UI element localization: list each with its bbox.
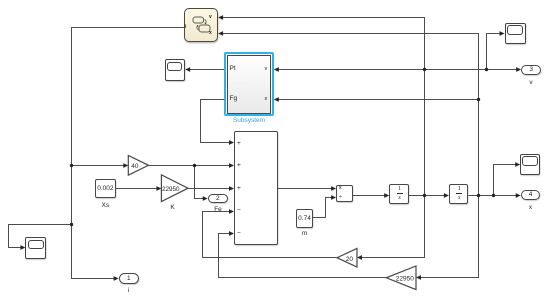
- wire branch up to scope2: [487, 34, 502, 70]
- gain 20 triangle (points left): [337, 248, 357, 267]
- wire constant 0.002 to gain K: [116, 188, 158, 190]
- wire branch from gain40 output down to outport 2 Fe: [195, 166, 205, 199]
- arrowhead into subsystem v input (points left): [274, 67, 279, 72]
- label x: [521, 204, 541, 211]
- junction dot integrator1 output: [423, 194, 426, 197]
- gain 22950b triangle (points left): [386, 266, 416, 290]
- chart port label x: [209, 30, 212, 36]
- junction dot velocity line x vertical: [423, 68, 426, 71]
- junction dot on gain40 output at Fe tap: [193, 164, 196, 167]
- arrowhead into scope4: [20, 245, 25, 250]
- product symbol x: [339, 185, 342, 191]
- gain K 22950 triangle: [161, 175, 188, 202]
- wire position line to subsystem x input: [277, 99, 479, 101]
- label v: [521, 79, 541, 86]
- arrowhead into chart x input (points left): [218, 31, 223, 36]
- subsystem port label x: [265, 96, 268, 102]
- outport 3 oval: [521, 65, 541, 75]
- constant 0.002: [95, 179, 116, 199]
- junction dot on trunk at scope4 tap: [70, 223, 73, 226]
- label Fe: [208, 206, 228, 213]
- arrowhead into scope2: [500, 31, 505, 36]
- wire product output to integrator 1: [353, 195, 386, 197]
- wire gain 22950b output to sum input 5: [219, 234, 387, 278]
- sum sign + input2: [237, 162, 241, 169]
- product block: [336, 185, 353, 202]
- label i: [119, 287, 139, 294]
- product symbol divide: [339, 194, 342, 200]
- wire gain 20 output to sum input 4: [203, 212, 338, 258]
- arrowhead into chart v input (points left): [218, 15, 223, 20]
- scope4 bottom left: [25, 237, 46, 259]
- arrowhead into sum input 5: [229, 231, 234, 236]
- arrowhead into sum input 4: [229, 209, 234, 214]
- junction dot on trunk at gain40 tap: [70, 164, 73, 167]
- arrowhead into outport 2: [203, 196, 208, 201]
- sum sign + input3: [237, 185, 241, 192]
- junction dot velocity line scope2 tap: [485, 68, 488, 71]
- constant 0.74: [296, 209, 313, 228]
- junction dot integrator2 output: [477, 194, 480, 197]
- wire subsystem Fg output to sum input 1: [201, 100, 231, 143]
- wire branch to gain 40 input: [72, 165, 125, 167]
- subsystem port label Fg: [230, 95, 238, 102]
- subsystem port label v: [265, 66, 268, 72]
- arrowhead into outport 3: [516, 67, 521, 72]
- subsystem watermark: [232, 81, 248, 87]
- arrowhead into outport 4: [516, 193, 521, 198]
- outport 1 oval: [119, 273, 139, 284]
- wire sum output to product input 1: [278, 188, 333, 190]
- chart port label v: [209, 14, 212, 20]
- label Xs: [95, 202, 116, 209]
- arrowhead into gain 20 input (points left): [357, 255, 362, 260]
- svg-text:20: 20: [346, 256, 354, 263]
- arrowhead into gain K: [156, 186, 161, 191]
- wire chart i output to outport 1 (vertical trunk): [72, 28, 185, 279]
- arrowhead into sum input 1: [229, 140, 234, 145]
- gain 40 triangle: [128, 155, 148, 175]
- wire gain K output to sum input 3: [188, 188, 231, 190]
- junction dot integrator2 output scope3 tap: [492, 194, 495, 197]
- scope1 (flipped scope near subsystem): [165, 59, 185, 80]
- wire integrator 1 output to integrator 2: [409, 195, 446, 197]
- wire position vertical up to chart x input: [222, 34, 479, 196]
- sum sign + input1: [237, 140, 241, 147]
- svg-text:22950: 22950: [162, 186, 180, 193]
- wire subsystem Pt output to scope1: [189, 69, 225, 71]
- sum sign - input4: [237, 207, 241, 214]
- sum sign - input5: [237, 230, 241, 237]
- wire position vertical down to gain 22950b input: [420, 196, 479, 278]
- arrowhead into integrator 1: [384, 193, 389, 198]
- arrowhead into product input 1: [331, 186, 336, 191]
- chart block (Stateflow): [184, 8, 218, 42]
- arrowhead into sum input 2: [229, 163, 234, 168]
- subsystem name label: [229, 117, 269, 124]
- arrowhead into outport 1: [114, 276, 119, 281]
- arrowhead into integrator 2: [444, 193, 449, 198]
- arrowhead into product input 2: [331, 195, 336, 200]
- wire branch up to scope3: [494, 165, 517, 196]
- arrowhead into scope3: [515, 162, 520, 167]
- subsystem block: [227, 55, 272, 114]
- arrowhead into gain 40: [123, 163, 128, 168]
- subsystem port label Pt: [230, 65, 236, 72]
- label m: [296, 230, 313, 237]
- wire integrator 2 output to outport 4: [468, 195, 517, 197]
- arrowhead into gain 22950b input (points left): [416, 275, 421, 280]
- scope3 right middle: [520, 154, 540, 176]
- wire gain 40 output to sum input 2: [149, 165, 231, 167]
- chart icon states: [184, 8, 218, 42]
- wire velocity vertical down to gain 20 input: [361, 196, 425, 258]
- subsystem selection border: [224, 52, 274, 116]
- label K: [165, 204, 180, 211]
- svg-text:22950: 22950: [396, 275, 414, 282]
- junction dot position line: [477, 98, 480, 101]
- arrowhead into sum input 3: [229, 186, 234, 191]
- outport 2 oval: [208, 194, 228, 204]
- chart port label i: [185, 24, 186, 30]
- outport 4 oval: [521, 190, 541, 200]
- sum block: [234, 131, 278, 245]
- integrator 1: [389, 184, 409, 204]
- wire velocity line to subsystem v and outport 3: [277, 69, 518, 71]
- svg-text:40: 40: [131, 163, 139, 170]
- arrowhead into scope1 (flipped, points left): [185, 67, 190, 72]
- wire branch to scope4: [9, 225, 72, 248]
- scope2 top right: [505, 23, 526, 45]
- wire constant 0.74 to product input 2: [313, 198, 333, 218]
- arrowhead into subsystem x input (points left): [274, 97, 279, 102]
- wire velocity vertical up to chart v input: [222, 18, 425, 196]
- integrator 2: [449, 184, 469, 204]
